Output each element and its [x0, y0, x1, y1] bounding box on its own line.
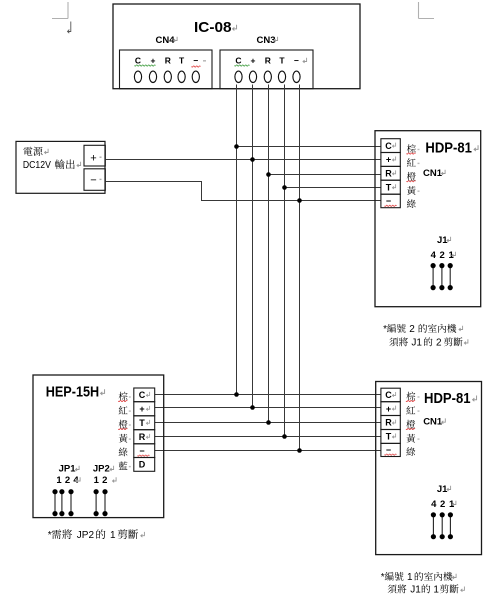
wire C to HDP-81 #2 — [237, 146, 381, 148]
HDP-81 #2 wire color label 綠 — [407, 199, 416, 208]
svg-text:+: + — [251, 56, 256, 66]
svg-text:JP2: JP2 — [77, 530, 95, 541]
svg-text:HDP-81: HDP-81 — [425, 140, 472, 157]
jumper JP1-4 — [70, 492, 72, 514]
svg-text:2: 2 — [436, 338, 442, 349]
HEP-15H terminal C box — [134, 388, 155, 402]
HDP-81 #2 wire color label 棕 — [407, 144, 416, 153]
svg-text:J1: J1 — [411, 338, 422, 349]
svg-text:JP2: JP2 — [93, 464, 110, 475]
svg-text:T: T — [139, 418, 145, 428]
svg-text:1 2: 1 2 — [94, 475, 108, 486]
power terminal - box — [84, 169, 105, 191]
svg-text:−: − — [386, 196, 391, 206]
junction — [282, 434, 287, 439]
svg-text:CN1: CN1 — [423, 168, 443, 179]
connector CN4 box — [120, 50, 213, 89]
HEP-15H wire color label 藍 — [119, 461, 128, 469]
wire T to HDP-81 #2 — [285, 187, 381, 189]
junction — [266, 420, 271, 425]
svg-text:D: D — [139, 460, 146, 470]
wire R to HDP-81 #2 — [269, 174, 381, 176]
svg-text:−: − — [90, 175, 96, 187]
svg-text:HDP-81: HDP-81 — [424, 390, 471, 407]
HDP-81 #1 terminal T box — [381, 430, 400, 444]
junction — [297, 198, 302, 203]
svg-text:1: 1 — [110, 530, 116, 541]
HEP-15H wire color label 橙 — [119, 420, 128, 429]
svg-text:+: + — [386, 404, 391, 414]
power terminal + box — [84, 145, 105, 166]
junction — [250, 157, 255, 162]
svg-text:1: 1 — [433, 585, 439, 596]
junction — [282, 185, 287, 190]
svg-text:T: T — [386, 432, 392, 442]
jumper J1-4 #2 — [432, 266, 434, 288]
HDP-81 #1 wire color label 黃 — [406, 434, 415, 443]
HDP-81 #2 wire color label 紅 — [407, 158, 416, 166]
svg-text:4 2 1: 4 2 1 — [431, 250, 455, 261]
svg-text:T: T — [179, 56, 185, 66]
HEP-15H wire color label 黃 — [119, 434, 128, 443]
svg-text:C: C — [135, 56, 141, 66]
HDP-81 #1 terminal R box — [381, 416, 400, 430]
svg-text:4 2 1: 4 2 1 — [431, 499, 455, 510]
HEP-15H wire color label 紅 — [119, 406, 128, 414]
wire vertical T from CN3 — [284, 85, 286, 437]
HEP-15H terminal + box — [134, 402, 155, 416]
svg-text:*: * — [48, 530, 52, 541]
jumper J1-4 #1 — [432, 515, 434, 537]
svg-text:R: R — [139, 432, 146, 442]
connector CN3 box — [220, 50, 313, 89]
svg-text:IC-08: IC-08 — [194, 19, 232, 36]
jumper J1-2 #2 — [441, 266, 443, 288]
svg-text:HEP-15H: HEP-15H — [46, 383, 99, 400]
HDP-81 #2 terminal T box — [381, 180, 400, 194]
HEP-15H terminal T box — [134, 416, 155, 430]
HDP-81 #1 wire color label 棕 — [406, 392, 415, 401]
svg-text:−: − — [193, 56, 198, 66]
svg-text:C: C — [385, 141, 392, 151]
HDP-81 #2 terminal − box — [381, 194, 400, 208]
wire - HEP-15H to HDP-81 #1 — [155, 450, 381, 452]
svg-text:+: + — [139, 404, 144, 414]
HDP-81 #2 wire color label 橙 — [407, 172, 416, 181]
svg-text:2: 2 — [409, 324, 415, 335]
HDP-81 #1 wire color label 綠 — [406, 447, 415, 456]
HDP-81 #1 terminal − box — [381, 443, 400, 456]
junction — [297, 448, 302, 453]
wire C HEP-15H to HDP-81 #1 — [155, 394, 381, 396]
HEP-15H wire color label 棕 — [119, 392, 128, 401]
svg-text:R: R — [165, 56, 171, 66]
wire + from power to HDP-81 #2 — [105, 159, 381, 161]
CN4 terminals 0 0 0 0 0 — [134, 71, 199, 82]
svg-text:CN1: CN1 — [423, 417, 443, 428]
door station HEP-15H box — [33, 375, 164, 518]
junction — [234, 392, 239, 397]
svg-text:J1: J1 — [410, 585, 421, 596]
svg-text:C: C — [139, 390, 146, 400]
jumper JP2-2 — [104, 492, 106, 514]
svg-text:R: R — [265, 56, 271, 66]
HEP-15H wire color label 綠 — [119, 448, 128, 457]
indoor unit HDP-81 #1 box — [376, 382, 482, 555]
jumper J1-1 #1 — [449, 515, 451, 537]
svg-text:1: 1 — [407, 572, 413, 583]
junction — [266, 172, 271, 177]
svg-text:1 2 4: 1 2 4 — [56, 475, 79, 486]
svg-text:R: R — [385, 169, 392, 179]
jumper JP2-1 — [95, 492, 97, 514]
svg-text:CN4: CN4 — [156, 35, 176, 46]
HDP-81 #2 terminal R box — [381, 166, 400, 180]
HDP-81 #1 wire color label 橙 — [406, 420, 415, 429]
wire + HEP-15H to HDP-81 #1 — [155, 407, 381, 409]
junction — [234, 144, 239, 149]
svg-text:C: C — [235, 56, 241, 66]
jumper JP1-1 — [54, 492, 56, 514]
CN3 terminals 0 0 0 0 0 — [235, 71, 300, 82]
HDP-81 #2 terminal C box — [381, 139, 400, 153]
jumper JP1-2 — [61, 492, 63, 514]
power supply box — [16, 141, 105, 193]
jumper J1-1 #2 — [449, 266, 451, 288]
svg-text:*: * — [383, 324, 387, 335]
wire R/T HEP-15H to HDP-81 #1 — [155, 436, 381, 438]
wire vertical C from CN3 — [236, 85, 238, 395]
svg-text:C: C — [385, 390, 392, 400]
svg-text:+: + — [151, 56, 156, 66]
svg-text:DC12V: DC12V — [23, 160, 51, 171]
wire T/R HEP-15H to HDP-81 #1 — [155, 422, 381, 424]
svg-text:−: − — [294, 56, 299, 66]
svg-text:+: + — [90, 153, 96, 165]
svg-text:−: − — [139, 446, 144, 456]
HDP-81 #1 wire color label 紅 — [406, 406, 415, 414]
junction — [250, 405, 255, 410]
svg-text:+: + — [386, 155, 391, 165]
HEP-15H terminal D box — [134, 458, 155, 472]
svg-text:T: T — [279, 56, 285, 66]
wire vertical - from CN3 — [299, 85, 301, 451]
main unit IC-08 box — [113, 4, 360, 89]
svg-text:JP1: JP1 — [59, 464, 77, 475]
note unit 1 line 2 — [388, 584, 407, 593]
svg-text:R: R — [385, 418, 392, 428]
wire vertical + from CN3 — [252, 85, 254, 408]
svg-text:T: T — [386, 182, 392, 192]
wire - from power to HDP-81 #2 — [105, 182, 381, 201]
HDP-81 #1 terminal + box — [381, 402, 400, 416]
indoor unit HDP-81 #2 box — [375, 131, 481, 307]
wire vertical R from CN3 — [268, 85, 270, 423]
svg-text:*: * — [381, 572, 385, 583]
HEP-15H terminal R box — [134, 430, 155, 444]
HEP-15H terminal − box — [134, 444, 155, 458]
HDP-81 #2 wire color label 黃 — [407, 186, 416, 195]
svg-text:CN3: CN3 — [257, 35, 276, 46]
HDP-81 #2 terminal + box — [381, 153, 400, 167]
note unit 2 line 2 — [389, 337, 408, 346]
jumper J1-2 #1 — [441, 515, 443, 537]
label power 電源 — [23, 147, 42, 156]
HDP-81 #1 terminal C box — [381, 388, 400, 402]
